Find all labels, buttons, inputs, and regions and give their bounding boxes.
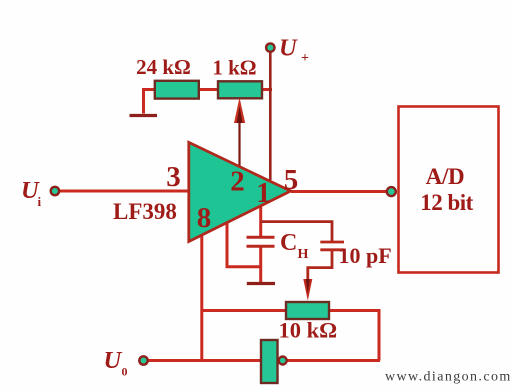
- svg-text:8: 8: [197, 202, 212, 234]
- arrow up into 1k pot (wiper): [234, 98, 245, 124]
- terminal U+: [266, 43, 274, 51]
- arrow down onto 10k pot (wiper): [303, 279, 312, 301]
- wire: 10k pot right lead down to output rail: [329, 311, 380, 361]
- terminal U0: [139, 356, 147, 364]
- svg-text:C: C: [280, 230, 297, 256]
- op-amp U1 LF398 triangle: [189, 142, 291, 241]
- svg-text:0: 0: [122, 365, 128, 379]
- wire: 10pF bottom lead L to wiper arrow: [308, 251, 332, 280]
- wire: pin 8 lead down to output rail: [200, 235, 203, 361]
- wire: U0 output rail: [146, 359, 380, 362]
- wire: bracket from C_H lead to 10pF top: [261, 222, 332, 241]
- svg-text:LF398: LF398: [113, 199, 177, 224]
- resistor 1k (pot): [218, 81, 262, 98]
- resistor 10k pot: [286, 302, 329, 319]
- wire: 10k pot left lead: [202, 309, 287, 312]
- wire: Ui input to pin 3: [57, 190, 190, 193]
- svg-text:10 kΩ: 10 kΩ: [279, 318, 338, 343]
- svg-text:i: i: [38, 194, 42, 209]
- resistor (vertical, on U0 rail): [261, 340, 278, 383]
- wire: 1k resistor right lead to U+ rail: [261, 88, 272, 91]
- ground (below C_H): [247, 282, 275, 285]
- wire: op-amp lower pin L to C_H bottom node: [227, 222, 262, 267]
- wire: pin 2 lead (wiper) from op-amp top edge up: [238, 121, 240, 166]
- wire: output pin 5 to A/D: [291, 190, 390, 193]
- svg-text:+: +: [301, 51, 309, 66]
- svg-text:5: 5: [284, 164, 299, 196]
- node: junction at A/D input: [387, 187, 396, 196]
- svg-text:U: U: [279, 35, 298, 62]
- wire: 24k resistor left lead to ground: [144, 90, 157, 114]
- wire: C_H top lead from op-amp bottom edge: [259, 206, 262, 237]
- ground (below 24k resistor): [130, 114, 158, 117]
- svg-text:U: U: [104, 347, 123, 374]
- wire: U+ rail down to op-amp top edge: [269, 50, 272, 180]
- terminal Ui: [51, 187, 59, 195]
- capacitor C_H plates: [247, 236, 275, 239]
- capacitor 10pF plates: [320, 241, 344, 244]
- svg-text:A/D: A/D: [426, 164, 465, 189]
- svg-text:1 kΩ: 1 kΩ: [212, 56, 256, 80]
- svg-text:12 bit: 12 bit: [420, 190, 473, 215]
- wire: between 24k and 1k resistors: [198, 88, 219, 91]
- svg-text:2: 2: [230, 166, 245, 198]
- svg-text:www.diangon.com: www.diangon.com: [385, 370, 512, 385]
- svg-text:10 pF: 10 pF: [339, 243, 392, 268]
- node: junction right of vertical resistor: [279, 357, 287, 365]
- svg-text:3: 3: [166, 161, 181, 193]
- wire: C_H bottom lead to ground: [259, 247, 262, 283]
- svg-text:1: 1: [256, 177, 271, 209]
- svg-text:H: H: [298, 247, 309, 262]
- resistor 24k: [155, 81, 199, 99]
- A/D converter block: [399, 107, 499, 273]
- svg-text:24 kΩ: 24 kΩ: [136, 55, 191, 79]
